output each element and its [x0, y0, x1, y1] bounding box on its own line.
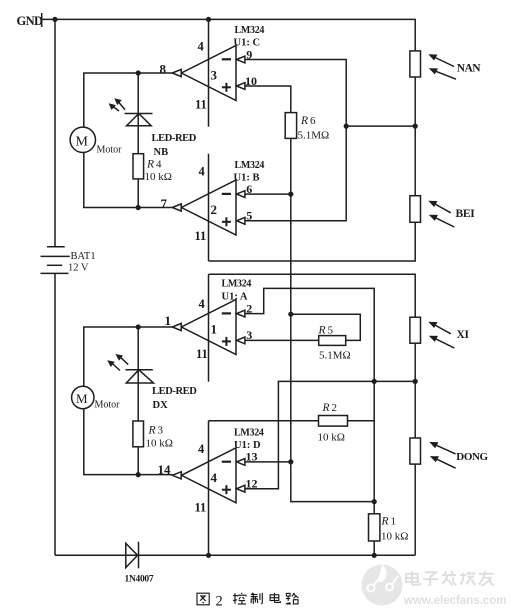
watermark url text: [403, 595, 506, 607]
node junction 415-381: [413, 379, 418, 384]
caption char 图: [197, 593, 209, 605]
caption char 电: [270, 593, 280, 603]
op-amp U1:D: [158, 421, 264, 556]
wire bottom rail: [55, 554, 415, 556]
svg-text:2: 2: [216, 593, 223, 609]
label R6 5.1M: [298, 115, 330, 142]
svg-text:NB: NB: [154, 147, 169, 158]
svg-text:DX: DX: [153, 400, 169, 411]
svg-text:4: 4: [156, 159, 162, 171]
BEI light arrows: [428, 201, 454, 227]
wire lower motor to bottom: [84, 409, 173, 475]
node junction top rail power: [206, 17, 211, 22]
label DONG: [456, 451, 488, 463]
svg-text:LED-RED: LED-RED: [152, 386, 197, 397]
svg-text:1: 1: [211, 322, 218, 337]
svg-text:3: 3: [158, 425, 164, 437]
svg-text:LED-RED: LED-RED: [152, 133, 197, 144]
svg-text:LM324: LM324: [235, 160, 265, 171]
svg-text:10 kΩ: 10 kΩ: [318, 432, 345, 444]
wire pin 10 to R6: [245, 86, 291, 113]
wire LED DX branch full: [137, 327, 139, 475]
label R1 10k: [381, 516, 409, 543]
motor M upper: [70, 127, 122, 155]
wire R1 to bottom rail: [373, 541, 375, 555]
wire pin 1 output to lower motor branch: [84, 327, 173, 387]
svg-text:LM324: LM324: [222, 279, 252, 290]
LED NB light arrows: [109, 98, 126, 111]
photoresistor NAN: [410, 51, 421, 77]
op-amp U1:B: [161, 154, 265, 261]
svg-text:3: 3: [211, 68, 218, 83]
wire pin 13: [245, 461, 291, 463]
wire R2 to 374: [348, 420, 375, 422]
node junction bottom rail R1: [372, 553, 377, 558]
label XI: [457, 329, 470, 341]
node junction LED DX branch bottom: [136, 472, 141, 477]
svg-text:11: 11: [195, 501, 207, 515]
svg-text:10 kΩ: 10 kΩ: [146, 438, 173, 450]
svg-text:12: 12: [246, 477, 258, 491]
svg-text:1: 1: [165, 313, 172, 328]
caption 图 2 控制电路 drawn as strokes: [197, 593, 298, 610]
photoresistor BEI: [410, 196, 421, 223]
svg-text:4: 4: [198, 442, 205, 456]
svg-text:5.1MΩ: 5.1MΩ: [319, 350, 351, 362]
svg-text:1: 1: [391, 516, 397, 528]
node junction LED DX branch top: [136, 324, 141, 329]
svg-text:1N4007: 1N4007: [125, 575, 154, 585]
svg-text:7: 7: [161, 196, 168, 211]
XI light arrows: [428, 322, 454, 348]
svg-text:11: 11: [195, 98, 207, 112]
svg-text:M: M: [76, 135, 89, 150]
node junction top-left: [52, 17, 57, 22]
watermark char 友: [479, 571, 494, 585]
wire XI to junction 381: [414, 343, 416, 438]
resistor R3: [133, 421, 144, 447]
resistor R5: [319, 336, 346, 346]
wire 346 to 415: [346, 125, 415, 127]
resistor R6: [285, 113, 296, 139]
svg-text:12 V: 12 V: [68, 263, 89, 274]
node junction bottom rail op-amp D: [206, 553, 211, 558]
node junction pin2 center: [288, 312, 293, 317]
svg-text:M: M: [76, 391, 88, 406]
svg-text:NAN: NAN: [457, 63, 482, 75]
op-amp U1:A: [165, 274, 253, 381]
svg-text:Motor: Motor: [95, 400, 121, 411]
node junction LED branch top: [136, 70, 141, 75]
node junction 415-126: [413, 124, 418, 129]
svg-text:XI: XI: [457, 329, 470, 341]
svg-text:R: R: [322, 402, 330, 414]
wire R2 line: [209, 420, 319, 422]
svg-text:BEI: BEI: [456, 208, 476, 220]
label LED-RED NB: [152, 133, 197, 158]
wire LED branch full: [137, 73, 139, 208]
svg-text:R: R: [381, 516, 389, 528]
wire pin 6: [245, 193, 291, 195]
LED DX light arrows: [107, 354, 128, 371]
wire A power rail to XI top: [209, 274, 416, 317]
wire y381 line: [245, 381, 415, 488]
svg-text:4: 4: [199, 165, 206, 179]
node junction 346-126: [344, 124, 349, 129]
svg-text:LM324: LM324: [235, 25, 265, 36]
caption char 制: [251, 593, 263, 604]
svg-text:DONG: DONG: [456, 451, 488, 463]
wire pin 9: [245, 60, 346, 127]
photoresistor DONG: [410, 438, 421, 464]
svg-text:4: 4: [211, 470, 218, 485]
svg-text:BAT1: BAT1: [71, 251, 96, 262]
wire top rail: [42, 19, 416, 51]
svg-text:8: 8: [160, 62, 167, 77]
svg-text:2: 2: [332, 402, 338, 414]
svg-text:10 kΩ: 10 kΩ: [381, 531, 408, 543]
photoresistor XI: [410, 317, 421, 343]
svg-text:Motor: Motor: [97, 145, 123, 156]
svg-text:R: R: [146, 159, 154, 171]
motor M lower: [72, 386, 121, 410]
wire center line to 374: [291, 462, 374, 502]
LED DX diode: [125, 370, 153, 383]
svg-text:R: R: [318, 325, 326, 337]
wire left rail upper: [54, 19, 56, 246]
svg-text:4: 4: [199, 297, 206, 311]
svg-text:4: 4: [198, 40, 205, 54]
svg-text:2: 2: [211, 202, 218, 217]
svg-text:10 kΩ: 10 kΩ: [145, 171, 172, 183]
caption char 路: [286, 593, 299, 604]
wire 126 to BEI: [414, 126, 416, 196]
node junction pin6 center line: [288, 192, 293, 197]
ground GND label: [17, 14, 44, 28]
wire R5 feedback top: [291, 314, 361, 340]
svg-text:GND: GND: [17, 14, 44, 28]
wire pin 3: [245, 339, 319, 341]
LED NB diode: [125, 114, 153, 126]
svg-text:R: R: [148, 425, 156, 437]
svg-text:5.1MΩ: 5.1MΩ: [298, 130, 330, 142]
svg-text:6: 6: [310, 115, 316, 127]
label LED-RED DX: [152, 386, 197, 411]
wire pin 2 loop: [245, 288, 374, 513]
caption char 控: [233, 593, 246, 604]
watermark char 发: [442, 571, 456, 585]
label R3 10k: [146, 425, 173, 450]
label NAN: [457, 63, 482, 75]
node junction 374-501: [372, 499, 377, 504]
svg-text:U1: A: U1: A: [222, 292, 248, 303]
watermark logo: [362, 565, 507, 608]
node junction 374-381: [372, 379, 377, 384]
label R4 10k: [145, 159, 172, 184]
NAN light arrows: [428, 54, 456, 79]
wire left rail lower: [54, 273, 56, 555]
battery label BAT1 12V: [68, 251, 96, 274]
resistor R1: [369, 514, 380, 541]
watermark char 电: [406, 571, 420, 585]
svg-text:R: R: [300, 115, 308, 127]
DONG light arrows: [429, 442, 455, 468]
watermark char 子: [423, 572, 438, 586]
node junction pin13 center: [288, 459, 293, 464]
wire NAN to 126: [414, 77, 416, 126]
svg-text:11: 11: [195, 229, 207, 243]
svg-text:14: 14: [158, 462, 172, 477]
resistor R4: [133, 154, 144, 179]
svg-text:11: 11: [196, 347, 208, 361]
caption char 2: [216, 593, 223, 609]
watermark char 烧: [460, 572, 475, 585]
op-amp U1:C: [160, 19, 265, 126]
label R5 5.1M: [318, 325, 351, 362]
label BEI: [456, 208, 476, 220]
wire B pin11 to BEI bottom: [209, 222, 416, 261]
wire pin 5: [245, 126, 346, 221]
resistor R2: [319, 416, 348, 427]
diode 1N4007: [126, 542, 139, 569]
ground tick: [41, 13, 43, 27]
wire right chain bottom corner: [414, 464, 416, 555]
node junction LED branch bottom: [136, 205, 141, 210]
svg-text:5: 5: [328, 325, 334, 337]
wire motor to bottom: [84, 153, 173, 208]
label 1N4007: [125, 575, 154, 585]
battery BAT1: [41, 247, 70, 274]
wire R6 down center line: [290, 138, 292, 461]
wire pin 8 output to motor branch: [84, 73, 173, 127]
svg-text:www.elecfans.com: www.elecfans.com: [403, 595, 506, 607]
svg-text:LM324: LM324: [234, 428, 264, 439]
label R2 10k: [318, 402, 345, 444]
